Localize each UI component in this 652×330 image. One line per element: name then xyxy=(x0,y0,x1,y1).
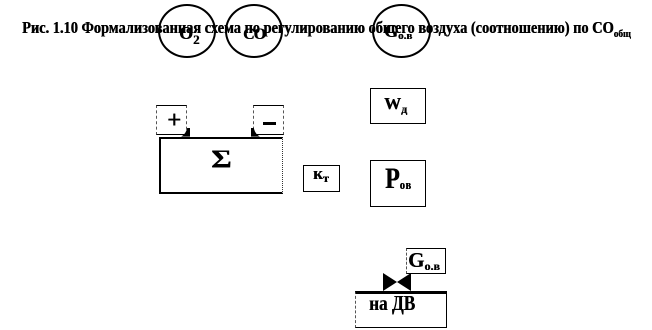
block P_ov xyxy=(370,160,426,207)
sigma glyph xyxy=(211,146,231,174)
valve (bowtie) xyxy=(383,273,411,291)
arrow into sigma (left) xyxy=(181,128,190,137)
label CO xyxy=(243,26,265,44)
block G_ov (small box above valve) xyxy=(406,248,446,274)
summator sigma box xyxy=(159,137,283,194)
node O2 (circle) xyxy=(158,4,216,58)
plus box xyxy=(156,105,187,135)
arrow into sigma (right) xyxy=(251,128,260,137)
block na DV xyxy=(355,291,447,328)
minus box xyxy=(253,105,284,135)
block W_d xyxy=(370,88,426,124)
node CO (circle) xyxy=(225,4,283,58)
caption text xyxy=(22,18,631,40)
block k_t xyxy=(303,165,340,192)
node G_ov (circle) xyxy=(372,4,431,58)
label G_ov (in circle) xyxy=(384,21,412,42)
label O2 xyxy=(179,23,200,48)
